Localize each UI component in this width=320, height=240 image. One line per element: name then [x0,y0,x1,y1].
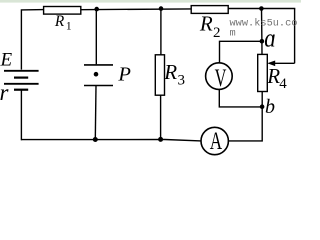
node junction on bottom wire at P branch [93,137,98,142]
charged particle in capacitor [94,72,99,77]
top scan strip [0,0,301,3]
svg-text:P: P [117,64,131,86]
wire P branch lower [94,86,97,140]
wire bottom left segment [21,140,201,141]
svg-text:2: 2 [213,25,221,41]
node junction on bottom wire at R3 branch [158,137,163,142]
svg-text:R: R [266,64,280,88]
node junction on top wire at P branch [94,7,99,12]
resistor R2 [191,6,228,14]
node junction on top wire at R3 branch [159,6,164,11]
wire voltmeter bottom lead [219,89,261,107]
wire node a branch [261,9,264,55]
wire top right segment [228,8,295,10]
svg-text:4: 4 [279,76,287,92]
wire P branch upper [95,9,97,64]
svg-text:www.ks5u.co: www.ks5u.co [230,17,298,29]
node junction on top wire at a branch [259,6,264,11]
wire R4 to node b [261,92,263,108]
svg-text:E: E [0,49,13,70]
wire bottom right segment [228,106,262,141]
rheostat slider arrow [267,61,294,67]
svg-text:3: 3 [178,73,186,89]
wire R3 branch upper [160,9,162,55]
svg-text:1: 1 [66,20,72,32]
svg-text:R: R [163,60,177,84]
wire voltmeter top lead [220,41,262,63]
rheostat R4 [258,54,268,91]
wire R3 branch lower [160,95,162,139]
svg-text:m: m [230,28,236,40]
wire right side down to slider [294,9,296,64]
wire battery negative to bottom [20,90,22,141]
wire top middle segment [81,8,192,11]
resistor R1 [44,7,81,15]
capacitor P [84,65,113,86]
battery E r [4,71,39,90]
wire top-left segment [21,10,44,70]
resistor R3 [155,55,164,95]
node a [260,39,265,44]
node b [260,104,265,109]
ammeter A [201,127,228,154]
svg-text:R: R [199,12,213,36]
svg-text:b: b [265,96,275,118]
svg-text:V: V [215,65,227,92]
svg-text:A: A [210,128,222,155]
svg-text:r: r [0,80,10,105]
voltmeter V [206,63,233,90]
svg-text:R: R [54,13,65,30]
